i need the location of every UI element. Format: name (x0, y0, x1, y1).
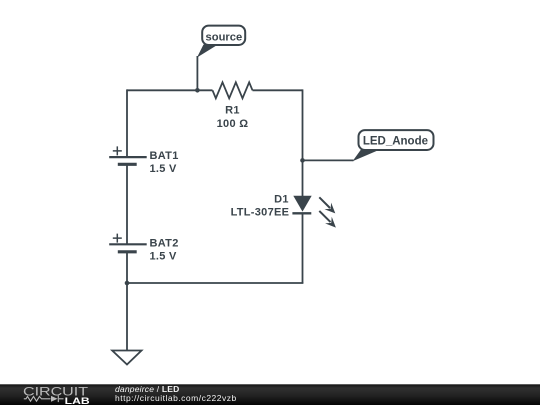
node junction dot source (195, 88, 200, 93)
svg-text:source: source (206, 32, 243, 44)
node junction dot LED_Anode (300, 158, 305, 163)
LED light arrow 2 (319, 211, 336, 228)
resistor R1 (213, 82, 253, 98)
LED D1 triangle (293, 196, 311, 212)
svg-text:100 Ω: 100 Ω (217, 118, 249, 130)
svg-text:http://circuitlab.com/c222vzb: http://circuitlab.com/c222vzb (115, 393, 237, 403)
node label callout: LED_Anode box (359, 130, 434, 150)
LED D1 cathode bar (292, 212, 311, 214)
wire left vertical mid (BAT1 to BAT2) (126, 164, 128, 244)
wire left vertical top (126, 89, 128, 157)
wire source stub (196, 56, 198, 90)
svg-text:D1: D1 (274, 193, 289, 205)
svg-text:LED_Anode: LED_Anode (363, 135, 428, 147)
wire ground stem (126, 283, 128, 351)
battery BAT2 (109, 234, 147, 252)
wire top-left horizontal (127, 89, 213, 91)
wire right vertical upper (302, 89, 304, 196)
svg-text:LAB: LAB (65, 396, 90, 405)
battery BAT1 (109, 146, 147, 164)
logo resistor-diode glyph (24, 396, 64, 403)
wire right vertical lower (302, 213, 304, 283)
node junction dot ground corner (125, 281, 130, 286)
LED light arrow 1 (319, 197, 335, 213)
node label callout: source tail (197, 45, 218, 58)
wire top-right horizontal (253, 89, 303, 91)
footer bar (0, 384, 540, 405)
wire left vertical bottom (126, 252, 128, 283)
node label callout: source box (202, 26, 245, 45)
node label callout: LED_Anode tail (353, 150, 381, 162)
svg-text:R1: R1 (225, 105, 240, 117)
svg-text:BAT1: BAT1 (150, 150, 179, 162)
svg-text:BAT2: BAT2 (150, 237, 179, 249)
svg-text:1.5 V: 1.5 V (150, 250, 178, 262)
ground (112, 351, 141, 365)
svg-text:1.5 V: 1.5 V (150, 163, 178, 175)
wire bottom horizontal (127, 282, 303, 284)
logo diode triangle (51, 396, 58, 402)
wire LED_Anode stub (303, 159, 354, 161)
svg-text:LTL-307EE: LTL-307EE (231, 206, 290, 218)
